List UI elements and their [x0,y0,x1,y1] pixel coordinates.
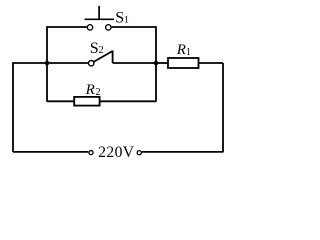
svg-text:S1: S1 [115,9,129,26]
wire: R1 left lead [156,62,168,64]
resistor R1 [168,58,199,68]
wire: middle branch left [47,62,88,64]
wire: bottom branch left [47,100,74,102]
switch S2 blade [94,51,113,62]
wire: bottom left segment [13,151,88,153]
svg-text:S2: S2 [90,40,104,57]
junction dot right [154,61,159,66]
svg-text:R2: R2 [85,82,101,98]
wire: outer left vertical [12,62,14,152]
push button S1 contacts [87,25,92,30]
wire: inner left vertical [46,26,48,102]
switch S2 drop [112,51,114,64]
wire: R1 right lead [199,62,224,64]
wire: outer right vertical [222,63,224,152]
switch S2 contact [89,61,94,66]
wire: bottom branch right [100,100,156,102]
wire: middle branch right [113,62,156,64]
wire: top branch left [47,26,87,28]
wire: bottom right segment [142,151,223,153]
AC source 220V terminals [89,151,93,155]
resistor R2 [74,97,99,106]
svg-text:220V: 220V [98,144,135,161]
push button S1 stem [98,6,100,19]
push button S1 bar [85,18,114,20]
wire: top branch right [112,26,156,28]
wire: inner right vertical [155,26,157,102]
wire: middle branch left feed [13,62,47,64]
svg-text:R1: R1 [176,42,191,58]
junction dot left [45,61,50,66]
